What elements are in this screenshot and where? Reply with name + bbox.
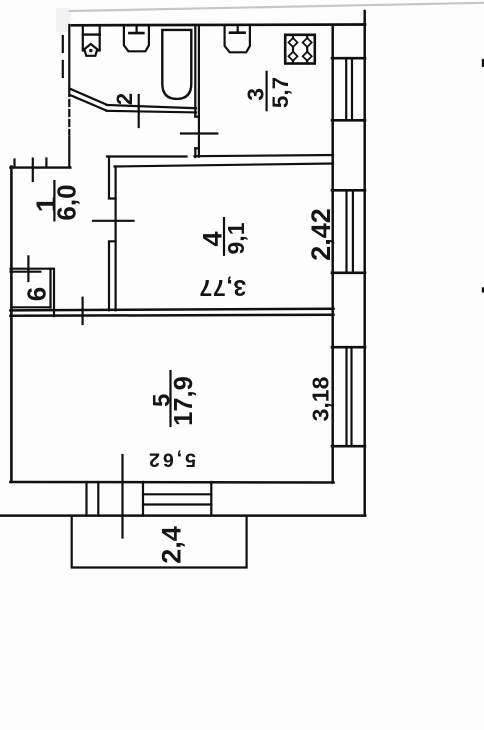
label fraction bar room5 <box>169 371 171 426</box>
tick: entrance door mark long <box>32 159 34 181</box>
wall: bathroom/kitchen divider east line <box>198 25 200 157</box>
wall: room1/room5 west exterior <box>10 167 13 483</box>
kitchen sink bar <box>230 31 245 34</box>
wall: diagonal corridor (double) <box>70 89 108 105</box>
wall: room1 north (entrance wall) <box>10 166 70 168</box>
balcony window unit box <box>143 482 211 516</box>
wall: bathroom south (double) <box>107 105 197 108</box>
svg-text:5,7: 5,7 <box>268 77 293 108</box>
wall: top exterior <box>72 23 365 26</box>
door caps room4 <box>109 199 116 242</box>
wall: bathroom west (solid-dashed-solid) <box>68 25 70 168</box>
wall: hall/room4 north lower line <box>115 164 334 167</box>
tick: entrance short right <box>45 159 47 167</box>
kitchen sink stub <box>237 26 239 33</box>
label fraction bar room4 <box>223 218 225 255</box>
svg-text:3: 3 <box>243 88 269 101</box>
tick: entrance short left <box>13 160 15 167</box>
balcony unit jamb left pair <box>87 482 99 516</box>
svg-text:9,1: 9,1 <box>223 222 249 254</box>
fixture: stove box <box>285 35 315 64</box>
wall: room5 south inner face <box>10 481 333 484</box>
svg-text:2,42: 2,42 <box>306 208 336 261</box>
svg-text:3,77: 3,77 <box>199 275 247 301</box>
wall: building south outer face <box>0 514 365 517</box>
balcony outline <box>72 516 247 568</box>
toilet tank stub <box>136 26 138 34</box>
wall: middle dividing (rooms/room5) upper line <box>10 309 333 311</box>
tick: bathroom door mark <box>138 95 140 127</box>
wall: middle dividing lower line <box>10 315 333 316</box>
wash basin dot <box>89 49 92 52</box>
svg-text:6,0: 6,0 <box>52 184 82 220</box>
fixture: bathtub <box>162 30 191 99</box>
wall: room4 west outer line with door gap <box>108 157 110 311</box>
dashed ghost line left of bathroom wall <box>62 36 64 77</box>
window W2 mid lines <box>347 190 353 272</box>
closet6 east wall double <box>51 269 55 316</box>
closet6 north wall line2 <box>11 271 41 273</box>
stove burner diamonds <box>289 38 298 47</box>
wall: inner right (rooms 3,4,5 east wall) <box>331 25 334 483</box>
wall: kitchen/corridor south upper line <box>107 155 333 157</box>
label fraction bar room1 <box>53 181 55 220</box>
balcony window sill lines <box>143 494 211 504</box>
wash basin divider <box>83 33 100 35</box>
svg-text:17,9: 17,9 <box>170 376 198 426</box>
fixture: kitchen sink (toilet-shaped) <box>225 26 250 53</box>
window W3 mid lines <box>347 347 352 446</box>
svg-text:2: 2 <box>112 93 137 105</box>
wall: outer right face of building <box>363 11 366 516</box>
svg-text:6: 6 <box>22 287 52 301</box>
tick: kitchen door mark <box>181 132 217 134</box>
wall: bathroom/kitchen divider west line with door gap <box>194 25 196 157</box>
closet6 north wall line1 <box>11 268 53 270</box>
toilet tank bar <box>129 32 143 35</box>
svg-text:5,62: 5,62 <box>146 449 196 471</box>
scan smudge top-left <box>56 8 70 32</box>
tick: room5 door mark <box>81 298 83 324</box>
tick: balcony door mark long <box>121 455 123 538</box>
closet6 interior south line <box>11 306 50 308</box>
stray mark right edge upper <box>482 59 484 67</box>
svg-text:3,18: 3,18 <box>308 376 334 421</box>
stove mid verticals <box>293 35 307 64</box>
window W2 caps <box>332 190 365 272</box>
scan page edge grey line <box>70 3 484 11</box>
fixture: wash basin box <box>83 26 100 51</box>
wash basin pentagon <box>84 44 97 56</box>
stray mark right edge lower <box>482 287 484 292</box>
tick: room4 door mark <box>93 220 134 222</box>
window W1 mid lines <box>346 58 352 120</box>
window W1 caps <box>332 58 365 120</box>
window W3 caps <box>332 347 365 446</box>
tick: closet6 door mark <box>27 256 29 281</box>
wall: room4 west inner line <box>114 167 116 311</box>
label fraction bar room3 <box>266 72 268 110</box>
door caps kitchen door <box>195 117 199 149</box>
svg-text:2,4: 2,4 <box>157 526 187 564</box>
fixture: toilet (bathroom) <box>124 26 149 52</box>
